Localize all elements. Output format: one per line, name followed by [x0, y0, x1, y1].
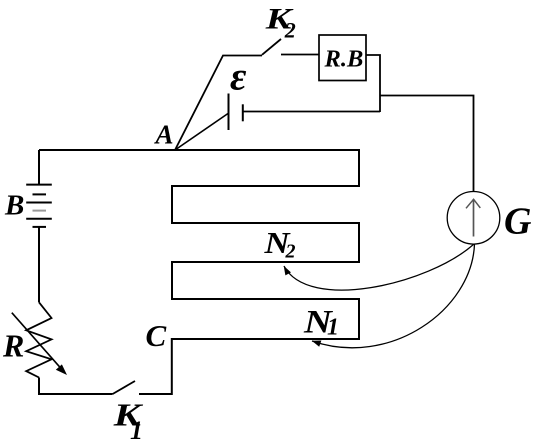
svg-text:2: 2 [284, 18, 296, 43]
svg-text:ε: ε [230, 54, 247, 99]
svg-text:R.B: R.B [324, 46, 364, 73]
svg-text:1: 1 [130, 416, 143, 445]
svg-text:B: B [4, 190, 24, 222]
svg-text:1: 1 [327, 315, 339, 341]
svg-text:G: G [504, 201, 532, 243]
svg-text:A: A [154, 120, 174, 150]
svg-text:2: 2 [285, 241, 296, 263]
svg-text:R: R [2, 328, 24, 364]
svg-text:C: C [146, 318, 167, 353]
